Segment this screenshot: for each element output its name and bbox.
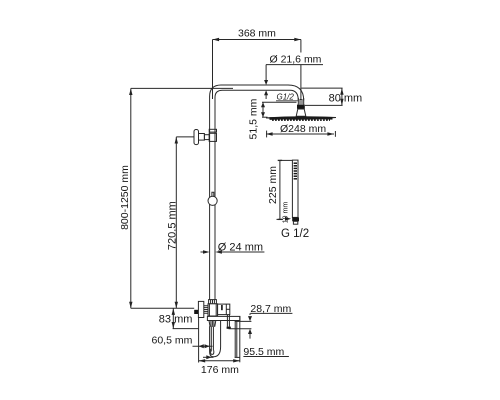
svg-text:368 mm: 368 mm xyxy=(238,28,276,40)
slider ring xyxy=(208,196,217,205)
dim 800-1250mm line xyxy=(129,88,233,308)
wand nut xyxy=(292,217,299,221)
G1/2 underline xyxy=(276,100,298,102)
dim 83mm line xyxy=(172,308,199,328)
dim 720.5mm line xyxy=(175,137,195,308)
dim 51.5mm line xyxy=(261,102,297,117)
dim D21.6 leader xyxy=(264,65,323,99)
wand nipple xyxy=(293,221,297,224)
mixer plate xyxy=(207,316,240,320)
svg-text:720.5 mm: 720.5 mm xyxy=(166,201,178,250)
mixer pipe connector xyxy=(209,300,217,304)
diverter rod xyxy=(227,315,231,329)
dim D24mm arrows xyxy=(201,250,265,253)
slider notch xyxy=(212,192,214,196)
mixer body xyxy=(208,304,218,316)
dim 95.5mm leader xyxy=(203,355,289,359)
hand shower wand xyxy=(292,160,298,217)
svg-text:Ø 24 mm: Ø 24 mm xyxy=(218,241,263,253)
mixer wall flange xyxy=(198,301,203,317)
head mount cone xyxy=(296,109,306,116)
svg-text:19 mm: 19 mm xyxy=(282,202,289,224)
dim 368mm line xyxy=(213,38,301,100)
svg-text:176 mm: 176 mm xyxy=(201,364,239,376)
svg-text:51,5 mm: 51,5 mm xyxy=(248,98,260,139)
spout tube xyxy=(210,321,221,357)
wand spray bars xyxy=(294,163,297,179)
dim 80mm line xyxy=(301,88,343,105)
svg-text:G 1/2: G 1/2 xyxy=(281,228,309,240)
pipe clamp xyxy=(209,133,216,141)
svg-text:83 mm: 83 mm xyxy=(159,314,193,326)
dim 176mm line xyxy=(199,318,240,363)
wall bracket flange xyxy=(194,130,199,145)
svg-text:28,7 mm: 28,7 mm xyxy=(250,303,291,315)
head connector nut xyxy=(297,105,305,109)
wall anchor xyxy=(194,310,198,314)
right extension line xyxy=(239,316,241,362)
wall bracket block xyxy=(204,135,209,140)
dim D248mm line xyxy=(266,131,335,138)
dim 60.5mm xyxy=(193,344,213,348)
shower arm xyxy=(210,85,304,100)
mixer thread hatch xyxy=(204,306,208,314)
spout connector xyxy=(209,321,216,327)
svg-text:80 mm: 80 mm xyxy=(329,93,363,105)
dim 19mm leader xyxy=(285,217,291,221)
dim 28.7mm xyxy=(229,313,293,338)
mixer handle xyxy=(218,304,230,315)
mixer leg xyxy=(235,321,240,358)
shower head disc xyxy=(266,117,336,120)
pipe collar xyxy=(209,129,216,132)
svg-text:225 mm: 225 mm xyxy=(267,166,279,204)
head connector thread xyxy=(298,98,303,105)
svg-text:Ø248 mm: Ø248 mm xyxy=(280,123,326,135)
wall bracket arm xyxy=(199,134,205,141)
svg-text:60,5 mm: 60,5 mm xyxy=(152,334,193,346)
svg-text:800-1250 mm: 800-1250 mm xyxy=(119,165,131,230)
riser pipe xyxy=(210,97,215,300)
dim 225mm line xyxy=(277,160,293,219)
svg-text:95.5 mm: 95.5 mm xyxy=(243,346,284,358)
svg-text:Ø 21,6 mm: Ø 21,6 mm xyxy=(270,53,322,65)
